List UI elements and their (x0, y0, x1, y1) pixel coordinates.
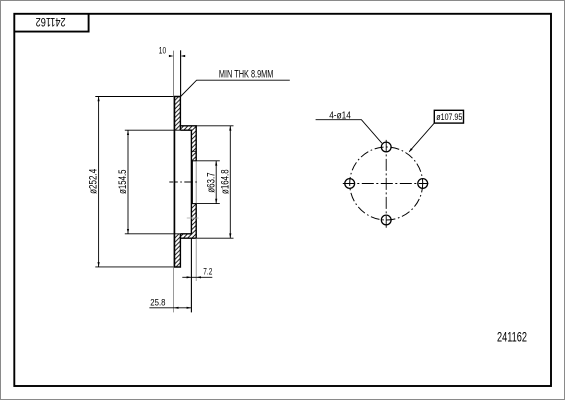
svg-text:ø107.95: ø107.95 (436, 112, 462, 123)
svg-text:7.2: 7.2 (203, 267, 212, 278)
svg-text:241162: 241162 (497, 328, 527, 344)
svg-text:ø63.7: ø63.7 (206, 172, 218, 192)
svg-text:ø252.4: ø252.4 (88, 169, 100, 194)
svg-text:4-ø14: 4-ø14 (329, 109, 351, 121)
svg-text:241162: 241162 (35, 15, 65, 29)
svg-text:ø164.8: ø164.8 (219, 169, 231, 194)
svg-text:ø154.5: ø154.5 (117, 170, 129, 194)
svg-text:25.8: 25.8 (150, 298, 165, 309)
svg-text:MIN THK 8.9MM: MIN THK 8.9MM (219, 69, 274, 81)
svg-text:10: 10 (159, 46, 166, 56)
